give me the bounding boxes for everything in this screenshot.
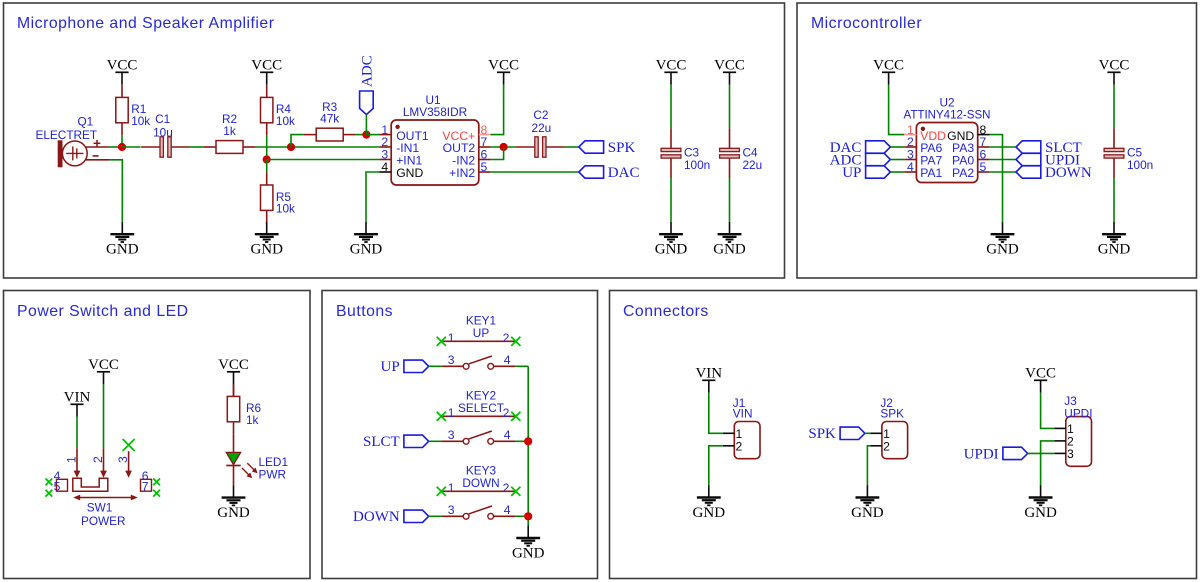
svg-text:GND: GND (250, 242, 283, 258)
hierarchical label ADC (U2) (830, 152, 891, 168)
svg-text:3: 3 (448, 353, 455, 367)
no-connect X on SW1 pin 7 (153, 490, 160, 497)
wire VCC to U2 pin 1 (889, 85, 905, 135)
wire SPK to J2 pin 1 (865, 432, 871, 434)
section box: Connectors (610, 291, 1197, 579)
KEY3 switch contacts (441, 503, 516, 519)
resistor R5 10k (261, 173, 296, 223)
wire C1 to R2 (190, 146, 204, 148)
power flag VCC (U2) (873, 57, 904, 85)
resistor R3 47k (304, 100, 356, 141)
power flag VCC (U1) (488, 57, 519, 85)
U2 pin 4 PA1 (904, 160, 942, 180)
ground (J2) (851, 485, 884, 521)
svg-text:Power Switch and LED: Power Switch and LED (17, 303, 189, 320)
connector J2 SPK (870, 396, 907, 459)
wire VCC to J3 pin 1 (1041, 393, 1055, 429)
KEY1 switch contacts (441, 353, 516, 369)
svg-text:Buttons: Buttons (336, 303, 393, 320)
wire KEY2 pin 4 to rail (516, 440, 528, 442)
power flag VCC (C4) (714, 57, 745, 85)
svg-text:SPK: SPK (608, 140, 636, 156)
junction node B (feedback tap) (287, 143, 295, 151)
wire KEY1 pin 4 to rail (516, 365, 528, 367)
wire node B up to R3 (291, 135, 304, 147)
svg-text:VCC: VCC (656, 57, 687, 73)
wire ADC to node C (365, 115, 367, 135)
no-connect X KEY3 pin 2 (511, 487, 520, 496)
section box: Buttons (322, 291, 598, 579)
capacitor C1 10u (141, 112, 190, 157)
wire node A to C1 (122, 146, 141, 148)
svg-text:GND: GND (396, 166, 423, 180)
U1 pin 3 +IN1 (379, 148, 422, 168)
U2 pin 2 PA6 (904, 135, 942, 155)
svg-text:22u: 22u (743, 158, 763, 172)
svg-text:PWR: PWR (259, 467, 287, 481)
svg-text:ELECTRET: ELECTRET (36, 128, 98, 142)
power flag VCC (LED) (218, 357, 249, 385)
connector J3 UPDI (1054, 394, 1092, 466)
hierarchical label SLCT (363, 434, 429, 450)
R6 top pin (233, 384, 235, 396)
no-connect X KEY1 pin 2 (511, 337, 520, 346)
power flag VIN (J1) (695, 365, 722, 393)
svg-text:2: 2 (503, 481, 510, 495)
junction rail-KEY2 (524, 437, 532, 445)
U1 pin 8 VCC+ (442, 123, 490, 143)
svg-text:VIN: VIN (695, 365, 722, 381)
wire R6 to LED1 (233, 434, 235, 452)
wire VCC to C3 (670, 85, 672, 129)
microphone Q1 ELECTRET (36, 114, 110, 167)
capacitor C4 22u (720, 128, 763, 178)
svg-text:4: 4 (504, 428, 511, 442)
wire UPDI to J3 pin 3 (1028, 452, 1055, 454)
svg-text:10u: 10u (153, 126, 173, 140)
svg-text:2: 2 (91, 456, 105, 463)
wire C4 to ground (729, 178, 731, 222)
wire C5 to ground (1113, 178, 1115, 222)
section box: Microcontroller (797, 3, 1197, 278)
SW1 pin 3 (116, 451, 132, 478)
LED LED1 PWR (226, 452, 288, 485)
power flag VCC (R4) (251, 57, 282, 85)
svg-text:UP: UP (381, 359, 400, 375)
ground (C4) (713, 222, 746, 258)
svg-text:C1: C1 (155, 112, 170, 126)
svg-text:Microcontroller: Microcontroller (811, 15, 922, 32)
section box: Microphone and Speaker Amplifier (4, 3, 785, 278)
ground (buttons) (512, 526, 545, 562)
U2 pin 1 VDD (904, 123, 946, 143)
U1 pin 2 -IN1 (379, 135, 419, 155)
wire R3 to node C (356, 134, 367, 136)
power flag VIN (SW1) (64, 389, 91, 417)
wire U1 GND pin down (366, 172, 379, 222)
svg-text:2: 2 (503, 331, 510, 345)
hierarchical label UP (U2) (842, 165, 890, 181)
ground (U2) (986, 222, 1019, 258)
wire R1 to node A (121, 135, 123, 147)
wire pin 7 to SLCT (990, 146, 1016, 148)
svg-text:3: 3 (448, 503, 455, 517)
capacitor C3 100n (661, 128, 710, 178)
ground (C5) (1098, 222, 1131, 258)
wire DAC to pin 2 (890, 146, 904, 148)
KEY2 pins 1-2 (unused) (441, 406, 516, 420)
svg-text:Connectors: Connectors (623, 303, 709, 320)
svg-text:GND: GND (217, 505, 250, 521)
svg-text:GND: GND (851, 505, 884, 521)
SW1 pins 4/5 pad (54, 469, 68, 494)
svg-text:PA1: PA1 (920, 166, 942, 180)
svg-text:UP: UP (842, 165, 861, 181)
U1 pin 1 OUT1 (379, 123, 429, 143)
hierarchical label ADC (down) (360, 55, 376, 114)
svg-text:Q1: Q1 (78, 114, 94, 128)
U2 pin 3 PA7 (904, 148, 942, 168)
resistor R1 10k (116, 85, 151, 135)
svg-text:5: 5 (54, 480, 61, 494)
no-connect X on SW1 pin 6 (153, 479, 160, 486)
U1 pin 5 +IN2 (449, 160, 490, 180)
svg-text:1: 1 (65, 456, 79, 463)
power flag VCC (C3) (656, 57, 687, 85)
svg-text:GND: GND (655, 242, 688, 258)
U1 pin 7 OUT2 (443, 135, 491, 155)
svg-text:GND: GND (1098, 242, 1131, 258)
wire node D to R5 (266, 160, 268, 173)
svg-text:VCC: VCC (1099, 57, 1130, 73)
svg-text:VCC: VCC (714, 57, 745, 73)
power flag VCC (C5) (1099, 57, 1130, 85)
KEY2 switch contacts (441, 428, 516, 444)
svg-text:3: 3 (116, 456, 130, 463)
capacitor C2 22u (516, 108, 565, 157)
wire UP to pin 4 (890, 171, 904, 173)
svg-text:VCC: VCC (873, 57, 904, 73)
svg-text:4: 4 (504, 353, 511, 367)
wire ADC to pin 3 (890, 159, 904, 161)
hierarchical label DOWN (1016, 165, 1092, 181)
svg-text:5: 5 (980, 160, 987, 174)
svg-text:10k: 10k (131, 114, 150, 128)
svg-text:LMV358IDR: LMV358IDR (403, 105, 467, 119)
SW1 actuator arrow (73, 495, 138, 501)
junction node C (OUT1) (362, 131, 370, 139)
capacitor C5 100n (1104, 128, 1153, 178)
junction node D (bias) (263, 155, 271, 163)
ground (J3) (1024, 485, 1057, 521)
wire R5 to ground (266, 222, 268, 223)
resistor R2 1k (204, 112, 256, 153)
no-connect X KEY1 pin 1 (437, 337, 446, 346)
wire common rail (527, 366, 529, 525)
svg-text:VCC: VCC (107, 57, 138, 73)
wire pin 5 to DAC (491, 171, 579, 173)
section box: Power Switch and LED (4, 291, 311, 579)
wire R4 to node D (266, 135, 268, 159)
switch KEY3 DOWN labels (462, 464, 499, 491)
hierarchical label UP (381, 359, 429, 375)
ground (mic) (106, 222, 139, 258)
svg-text:2: 2 (503, 406, 510, 420)
hierarchical label UPDI (J3) (964, 446, 1028, 462)
wire C3 to ground (670, 178, 672, 222)
svg-text:DOWN: DOWN (1045, 165, 1092, 181)
svg-text:+IN2: +IN2 (449, 166, 475, 180)
wire KEY3 pin 4 to rail (516, 515, 528, 517)
KEY1 pins 1-2 (unused) (441, 331, 516, 345)
svg-text:5: 5 (481, 160, 488, 174)
wire U2 GND down (990, 135, 1003, 222)
svg-text:100n: 100n (1127, 158, 1153, 172)
svg-text:ATTINY412-SSN: ATTINY412-SSN (904, 108, 991, 122)
wire VCC to SW1 pin 2 (103, 384, 105, 448)
svg-text:VCC: VCC (251, 57, 282, 73)
wire UP to KEY1 pin 3 (429, 365, 442, 367)
svg-text:ADC: ADC (360, 55, 376, 87)
connector J1 VIN (723, 396, 760, 459)
svg-text:VCC: VCC (488, 57, 519, 73)
wire VCC to pin 8 (491, 85, 504, 135)
hierarchical label SPK (J2) (808, 426, 865, 442)
wire mic+ to node A (110, 146, 122, 148)
MCU U2 ATTINY412-SSN (904, 96, 991, 183)
svg-text:VIN: VIN (64, 389, 91, 405)
svg-text:1: 1 (448, 406, 455, 420)
op-amp U1 LMV358IDR (391, 93, 479, 185)
svg-text:UPDI: UPDI (1064, 407, 1092, 421)
svg-text:VIN: VIN (733, 406, 753, 420)
wire node C to pin 1 (366, 134, 379, 136)
wire pin 7 to node E (491, 146, 516, 148)
ground (R5) (250, 222, 283, 258)
svg-text:POWER: POWER (81, 514, 126, 528)
svg-text:4: 4 (381, 160, 388, 174)
switch KEY2 SELECT labels (458, 389, 504, 416)
wire J1 pin 2 to ground (709, 446, 723, 485)
svg-text:10k: 10k (276, 201, 295, 215)
svg-text:Microphone and Speaker Amplifi: Microphone and Speaker Amplifier (17, 15, 274, 32)
svg-text:VCC: VCC (1025, 365, 1056, 381)
svg-text:GND: GND (106, 242, 139, 258)
resistor R6 1k (227, 384, 261, 434)
svg-text:2: 2 (883, 439, 890, 453)
junction node A (118, 143, 126, 151)
svg-text:PA2: PA2 (952, 166, 974, 180)
svg-text:DAC: DAC (608, 165, 640, 181)
svg-text:C2: C2 (533, 108, 548, 122)
wire mic- to ground (110, 160, 122, 222)
wire node E to pin 6 feedback (491, 147, 504, 160)
KEY3 pins 1-2 (unused) (441, 481, 516, 495)
SW1 pin 2 (91, 448, 107, 478)
wire SLCT to KEY2 pin 3 (429, 440, 442, 442)
svg-text:1k: 1k (223, 124, 236, 138)
svg-text:GND: GND (512, 545, 545, 561)
U1 pin 4 GND (379, 160, 423, 180)
svg-text:2: 2 (736, 439, 743, 453)
svg-text:GND: GND (350, 242, 383, 258)
wire C2 to SPK (565, 146, 579, 148)
ground (J1) (693, 485, 726, 521)
svg-text:22u: 22u (532, 121, 552, 135)
power flag VCC (J3) (1025, 365, 1056, 393)
svg-text:GND: GND (986, 242, 1019, 258)
svg-text:100n: 100n (684, 158, 710, 172)
hierarchical label DOWN (353, 509, 429, 525)
hierarchical label SLCT (1016, 140, 1082, 156)
svg-text:1: 1 (448, 331, 455, 345)
svg-text:1: 1 (448, 481, 455, 495)
resistor R4 10k (261, 85, 296, 135)
SW1 pin 1 (65, 448, 81, 478)
svg-text:3: 3 (448, 428, 455, 442)
U2 pin 7 PA3 (952, 135, 990, 155)
wire node D to U1 +IN1 (267, 159, 380, 161)
hierarchical label UPDI (1016, 152, 1080, 168)
svg-text:UPDI: UPDI (964, 446, 999, 462)
wire J3 pin 2 to ground (1041, 441, 1055, 485)
svg-text:SPK: SPK (880, 406, 904, 420)
svg-text:1k: 1k (246, 413, 259, 427)
svg-text:4: 4 (907, 160, 914, 174)
svg-text:SELECT: SELECT (458, 401, 504, 415)
svg-text:SLCT: SLCT (363, 434, 400, 450)
hierarchical label DAC (U2) (830, 140, 891, 156)
svg-text:GND: GND (713, 242, 746, 258)
svg-text:7: 7 (142, 480, 149, 494)
no-connect X on SW1 pin 4 (46, 479, 53, 486)
wire VCC to C5 (1113, 85, 1115, 129)
junction node E (OUT2) (500, 143, 508, 151)
svg-text:GND: GND (693, 505, 726, 521)
wire VIN to SW1 pin 1 (76, 417, 78, 449)
svg-text:DOWN: DOWN (353, 509, 400, 525)
no-connect X KEY2 pin 1 (437, 412, 446, 421)
svg-text:UP: UP (473, 326, 490, 340)
U2 pin 8 GND (947, 123, 990, 143)
ground (C3) (655, 222, 688, 258)
svg-text:SW1: SW1 (87, 501, 113, 515)
junction rail-KEY3 (524, 512, 532, 520)
svg-text:SPK: SPK (808, 426, 836, 442)
wire VIN to J1 pin 1 (709, 393, 723, 434)
wire R2 to U1 -IN1 (255, 146, 379, 148)
power flag VCC (R1) (107, 57, 138, 85)
SW1 pins 6/7 pad (141, 469, 152, 494)
svg-text:VCC: VCC (88, 357, 119, 373)
switch KEY1 UP labels (466, 314, 496, 341)
wire pin 6 to UPDI (990, 159, 1016, 161)
no-connect X KEY3 pin 1 (437, 487, 446, 496)
wire DOWN to KEY3 pin 3 (429, 515, 442, 517)
ground (U1) (350, 222, 383, 258)
svg-text:10k: 10k (276, 114, 295, 128)
svg-text:GND: GND (1024, 505, 1057, 521)
power flag VCC (SW1) (88, 357, 119, 385)
svg-text:47k: 47k (320, 112, 339, 126)
U1 pin 6 -IN2 (452, 148, 490, 168)
wire pin 5 to DOWN (990, 171, 1016, 173)
wire VCC to C4 (729, 85, 731, 129)
U2 pin 5 PA2 (952, 160, 990, 180)
hierarchical label DAC (579, 165, 640, 181)
svg-text:4: 4 (504, 503, 511, 517)
ground (LED) (217, 485, 250, 521)
U2 pin 6 PA0 (952, 148, 990, 168)
no-connect X on SW1 pin 5 (46, 490, 53, 497)
no-connect X on SW1 pin 3 (123, 439, 135, 451)
svg-text:DOWN: DOWN (462, 476, 499, 490)
svg-text:VCC: VCC (218, 357, 249, 373)
switch SW1 POWER body (73, 478, 126, 528)
hierarchical label SPK (579, 140, 636, 156)
svg-text:3: 3 (1067, 447, 1074, 461)
wire J2 pin 2 to ground (867, 446, 870, 485)
no-connect X KEY2 pin 2 (511, 412, 520, 421)
